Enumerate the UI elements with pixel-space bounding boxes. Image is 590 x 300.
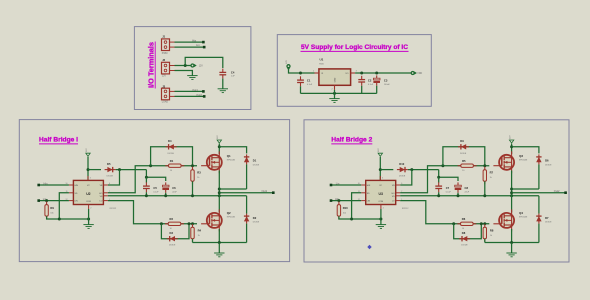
label IRFZ44N [519, 217, 528, 219]
node input (top) [330, 184, 333, 187]
net label Hin [44, 181, 48, 185]
marker blue diamond [367, 245, 371, 249]
label 12V rotated [510, 135, 512, 139]
wire D3 branch [161, 224, 189, 239]
node input (top) [37, 184, 40, 187]
pin 7 [401, 191, 402, 193]
svg-text:J2: J2 [162, 58, 165, 62]
ground (U1) [329, 99, 339, 103]
wire LO to gate Q-low [108, 201, 197, 224]
wire D10 to VB/caps [408, 169, 439, 171]
junction D3 left [160, 222, 163, 225]
diode D5 (bootstrap) [105, 167, 116, 172]
pin 2 [90, 208, 91, 210]
label R4 [198, 229, 202, 233]
wire source to rail [218, 229, 220, 243]
svg-text:12V: 12V [217, 135, 219, 139]
svg-text:C4: C4 [231, 70, 235, 74]
label R2 [170, 217, 174, 221]
pin 2 [383, 208, 384, 210]
wire VS net [400, 195, 539, 197]
label DIODE [253, 222, 260, 224]
svg-text:R9: R9 [50, 206, 54, 210]
wire ground rail [301, 92, 377, 94]
label 1k [197, 177, 199, 179]
label DIODE [461, 244, 468, 246]
net label Lin [336, 181, 340, 185]
wire D1 to phase [246, 164, 248, 189]
junction gate low [191, 222, 194, 225]
svg-text:R6: R6 [462, 217, 466, 221]
svg-text:12V: 12V [199, 66, 204, 68]
svg-text:0.1uF: 0.1uF [368, 84, 374, 86]
wire SD to gnd [59, 193, 69, 219]
label D5 [107, 162, 111, 166]
wire 12V rail to D6 [512, 147, 539, 154]
net label Out2 [196, 93, 202, 97]
svg-text:5V Supply for Logic Circuitry: 5V Supply for Logic Circuitry of IC [301, 44, 408, 51]
diode D6 (freewheel high) [536, 154, 541, 164]
net label Lin [196, 43, 200, 47]
wire R10 to COM/gnd [339, 216, 381, 219]
junction gnd [333, 92, 336, 95]
label 12V flag [199, 66, 204, 68]
net label Out2 [554, 189, 560, 193]
svg-text:22uF: 22uF [172, 191, 177, 193]
svg-text:Out2: Out2 [196, 93, 202, 97]
junction pin2/gnd [379, 218, 382, 221]
label 22uF [172, 191, 177, 193]
svg-text:D3: D3 [170, 231, 174, 235]
svg-text:12V: 12V [286, 60, 288, 64]
svg-text:R5: R5 [462, 159, 466, 163]
label 0.1uF [153, 191, 159, 193]
resistor R10 10k [337, 202, 340, 220]
junction C1 tap [299, 72, 302, 75]
label DIODE [168, 153, 175, 155]
svg-text:C5: C5 [153, 186, 157, 190]
label C2 [368, 78, 372, 82]
label D4 [168, 139, 172, 143]
svg-text:C8: C8 [465, 186, 469, 190]
label DIODE [107, 176, 114, 178]
diode D8 [459, 236, 470, 241]
capacitor C6 (electrolytic) [162, 182, 169, 192]
wire R8 to COM rail [484, 239, 486, 243]
svg-text:DIODE: DIODE [460, 153, 467, 155]
net label Lin [43, 197, 47, 201]
pin 11 [66, 191, 68, 193]
wire C4 to ground [222, 79, 224, 89]
wire Out1 [219, 192, 273, 194]
label 12V rotated [378, 148, 380, 152]
wire VB rail to caps [146, 170, 165, 181]
IC U3 IR2112 gate driver [361, 176, 400, 209]
capacitor C5 [143, 182, 150, 192]
svg-text:U1: U1 [320, 57, 324, 61]
label DIODE [545, 164, 552, 166]
svg-text:6: 6 [109, 183, 110, 185]
svg-text:Q3: Q3 [519, 154, 523, 158]
label C7 [446, 186, 450, 190]
wire 12V rail to D1 [219, 147, 246, 154]
label C8 [465, 186, 469, 190]
junctions phase [218, 188, 221, 195]
junction 12V rail [510, 145, 513, 148]
net label Hin [192, 38, 196, 42]
svg-text:1uF: 1uF [231, 75, 235, 77]
svg-text:Out1: Out1 [192, 88, 198, 92]
label Q2 [227, 211, 231, 215]
IC U2 IR2112 gate driver [69, 176, 108, 209]
pin 6 [109, 183, 110, 185]
node Out2 [564, 191, 567, 194]
svg-text:R10: R10 [343, 206, 348, 210]
svg-text:0.1uF: 0.1uF [153, 191, 159, 193]
svg-text:LO: LO [100, 201, 103, 203]
svg-text:D7: D7 [545, 216, 549, 220]
power flag VDD [411, 71, 417, 74]
node Out1/Out2 terminal dots [202, 90, 205, 98]
svg-text:LIN: LIN [75, 201, 79, 203]
ground (J2) [187, 76, 197, 80]
svg-text:DIODE: DIODE [399, 176, 406, 178]
junction D4 left [149, 164, 152, 167]
label Q1 [227, 154, 231, 158]
svg-text:12V: 12V [86, 148, 88, 152]
svg-text:Half Bridge 2: Half Bridge 2 [331, 136, 372, 143]
title 5V Supply for Logic Circuitry of IC [301, 44, 409, 51]
svg-text:DIODE: DIODE [169, 244, 176, 246]
svg-text:LIN: LIN [367, 201, 371, 203]
power flag 12V (chip supply) [86, 153, 90, 156]
svg-text:IR2112: IR2112 [110, 208, 117, 210]
label VDD [417, 73, 422, 75]
junction pin2/gnd [87, 218, 90, 221]
svg-text:DIODE: DIODE [168, 153, 175, 155]
label R1 [170, 159, 174, 163]
svg-text:0.1uF: 0.1uF [307, 84, 313, 86]
junction C-boot tap [145, 176, 148, 179]
capacitor C8 (electrolytic) [455, 182, 462, 192]
svg-text:2: 2 [383, 208, 384, 210]
svg-text:C3: C3 [384, 78, 388, 82]
wire R3 to VS [192, 181, 194, 195]
label C1 [307, 79, 311, 83]
label 10k [50, 213, 53, 215]
svg-text:U2: U2 [86, 192, 90, 196]
transistor Q2 IRFZ44N [201, 209, 222, 231]
svg-text:HO: HO [99, 193, 102, 195]
label D6 [545, 159, 549, 163]
capacitor C1 [297, 76, 304, 86]
pin 3 [90, 178, 91, 180]
svg-text:10k: 10k [343, 213, 346, 215]
resistor R3 1k (gate-source) [191, 167, 194, 185]
junction D-low [480, 222, 483, 225]
wire COM pin to ground [88, 209, 90, 225]
label C4 [231, 70, 235, 74]
pin 12 [66, 199, 68, 201]
label 10 [170, 228, 173, 230]
svg-text:1k: 1k [197, 177, 199, 179]
label C6 [172, 186, 176, 190]
svg-text:R2: R2 [170, 217, 174, 221]
label R6 [462, 217, 466, 221]
label DIODE [460, 153, 467, 155]
wire HO to gate Q-high [108, 166, 197, 193]
wire J2 pin2 to ground [175, 71, 193, 76]
pin 11 [358, 191, 360, 193]
transistor Q1 IRFZ44N [201, 151, 222, 173]
junction VB drop [410, 168, 413, 171]
label R7 [490, 171, 494, 175]
junction gnd rail [218, 241, 221, 244]
label D8 [462, 231, 466, 235]
label R9 [50, 206, 54, 210]
svg-text:J1: J1 [162, 35, 165, 39]
label LOAD [162, 101, 169, 104]
label U2 [86, 192, 90, 196]
diode D7 (freewheel low) [536, 214, 541, 224]
node input (bottom) [330, 199, 333, 202]
svg-text:COM: COM [86, 201, 91, 203]
wire C1 to ground rail [300, 86, 302, 93]
label D2 [253, 216, 257, 220]
label IRFZ44N [227, 160, 236, 162]
svg-text:1: 1 [313, 71, 314, 73]
wire VO to VDD flag [355, 72, 411, 74]
regulator U1 7805 [314, 69, 355, 90]
svg-text:Q4: Q4 [519, 211, 523, 215]
svg-text:D9: D9 [460, 139, 464, 143]
svg-text:Lin: Lin [336, 181, 340, 185]
label 10k [343, 213, 346, 215]
svg-text:DIODE: DIODE [545, 164, 552, 166]
wire SD to gnd [352, 193, 362, 219]
node Hin/Lin terminal dots [202, 41, 205, 49]
svg-text:GND: GND [335, 77, 337, 82]
wire D6 return [512, 188, 539, 190]
pin 2 [332, 88, 333, 90]
svg-text:Lin: Lin [196, 43, 200, 47]
svg-text:R1: R1 [170, 159, 174, 163]
wire Out2 [512, 192, 566, 194]
wire input HIN [39, 184, 69, 186]
wire COM pin to ground [380, 209, 382, 225]
svg-text:Out1: Out1 [262, 189, 268, 193]
label IR2112 [110, 208, 117, 210]
svg-text:1k: 1k [198, 235, 200, 237]
wire flag to drain [218, 144, 220, 154]
junction gate low [483, 222, 486, 225]
svg-text:IRFZ44N: IRFZ44N [227, 217, 236, 219]
label J2 [162, 58, 165, 62]
wire 12V to VI [289, 68, 315, 73]
diode D3 [167, 236, 178, 241]
frame: Half Bridge 2 block border [304, 120, 569, 262]
title Half Bridge 2 [331, 136, 372, 144]
svg-text:Out2: Out2 [554, 189, 560, 193]
wire D8 branch [454, 224, 482, 239]
wire R9 to COM/gnd [47, 216, 89, 219]
junction gate high [483, 164, 486, 167]
label J3 [162, 84, 165, 88]
transistor Q4 IRFZ44N [493, 209, 514, 231]
label D1 [253, 159, 257, 163]
pin 10 [358, 183, 360, 185]
wire J2 pin1 to 12V flag [175, 65, 192, 67]
svg-text:D6: D6 [545, 159, 549, 163]
frame: Half Bridge 1 block border [19, 120, 289, 262]
resistor R2 10 [165, 222, 184, 225]
power flag 12V (chip supply) [378, 153, 382, 156]
diode D9 [458, 144, 469, 149]
svg-text:Hin: Hin [192, 38, 196, 42]
wire C5 to VS [145, 192, 147, 196]
label DIODE [545, 222, 552, 224]
junctions phase [510, 188, 513, 195]
pin 1 [401, 199, 402, 201]
node Out1 [272, 191, 275, 194]
wire flag to drain [511, 144, 513, 154]
resistor R6 10 [457, 222, 476, 225]
net label Out1 [262, 189, 268, 193]
ground (driver) [83, 225, 93, 229]
label IR2112 [402, 208, 409, 210]
wire input LIN [39, 200, 69, 202]
pin 12 [358, 199, 360, 201]
svg-text:VO: VO [345, 73, 348, 75]
svg-text:COM: COM [378, 201, 383, 203]
label C3 [384, 78, 388, 82]
label 10 [462, 170, 465, 172]
svg-text:0.1uF: 0.1uF [446, 191, 452, 193]
title Half Bridge I [39, 136, 78, 144]
wire to C7 [438, 177, 440, 182]
svg-text:R8: R8 [490, 229, 494, 233]
junction gnd rail [510, 241, 513, 244]
label U3 [379, 192, 383, 196]
ground (driver) [376, 225, 386, 229]
wire VB rail to caps [439, 170, 458, 181]
diode D2 (freewheel low) [244, 214, 249, 224]
svg-text:IRFZ44N: IRFZ44N [227, 160, 236, 162]
label D7 [545, 216, 549, 220]
label 12V [162, 75, 167, 77]
wire to VB pin [400, 170, 412, 185]
svg-text:D8: D8 [462, 231, 466, 235]
pin 10 [66, 183, 68, 185]
label 7805 [319, 64, 325, 66]
svg-text:2: 2 [90, 208, 91, 210]
wire to C5 [145, 177, 147, 182]
wire J1 outputs [175, 42, 205, 47]
label R10 [343, 206, 348, 210]
svg-text:DIODE: DIODE [461, 244, 468, 246]
junctions C2 C3 taps [360, 72, 378, 75]
wire 12V flag to VDD pin [379, 157, 381, 181]
junction VDD/D-boot [379, 168, 382, 171]
wire VS to D2 [246, 196, 248, 214]
label Q4 [519, 211, 523, 215]
diode D1 (freewheel high) [244, 154, 249, 164]
svg-text:DIODE: DIODE [253, 222, 260, 224]
diode D10 (bootstrap) [397, 167, 408, 172]
svg-text:22uF: 22uF [465, 191, 470, 193]
svg-text:3: 3 [90, 178, 91, 180]
svg-text:IRFZ44N: IRFZ44N [519, 160, 528, 162]
frame: I/O Terminals block border [134, 27, 251, 110]
junction C-boot tap [437, 176, 440, 179]
wire to ground [218, 243, 220, 254]
svg-text:C7: C7 [446, 186, 450, 190]
capacitor C4 [219, 69, 226, 79]
label R8 [490, 229, 494, 233]
svg-text:7805: 7805 [319, 64, 325, 66]
connector J3 [162, 88, 175, 100]
wire J2 to C4 [185, 57, 223, 68]
net label Hin [335, 197, 339, 201]
wire phase vertical [511, 171, 513, 213]
svg-text:IR2112: IR2112 [402, 208, 409, 210]
wire D7 to COM rail [538, 224, 540, 243]
svg-text:HIN: HIN [75, 185, 79, 187]
svg-text:D2: D2 [253, 216, 257, 220]
power flag 12V input [287, 65, 290, 71]
label IRFZ44N [519, 160, 528, 162]
label R5 [462, 159, 466, 163]
junction D9 left [441, 164, 444, 167]
wire VS net [108, 195, 247, 197]
label 10 [462, 228, 465, 230]
label 12V rotated [86, 148, 88, 152]
resistor R1 10 [165, 164, 184, 167]
transistor Q3 IRFZ44N [493, 151, 514, 173]
wire R4 to COM rail [192, 239, 194, 243]
label DIODE [253, 164, 260, 166]
svg-text:HO: HO [392, 193, 395, 195]
svg-text:PWM: PWM [162, 53, 168, 55]
svg-text:R4: R4 [198, 229, 202, 233]
junction R9 tap [45, 199, 48, 202]
label DIODE [169, 244, 176, 246]
svg-text:12V: 12V [162, 75, 167, 77]
junction D8 left [452, 222, 455, 225]
svg-text:Q1: Q1 [227, 154, 231, 158]
svg-text:12V: 12V [378, 148, 380, 152]
svg-text:DIODE: DIODE [107, 176, 114, 178]
svg-text:3: 3 [382, 178, 383, 180]
wire HO to gate Q-high [400, 166, 489, 193]
svg-text:LOAD: LOAD [162, 101, 169, 104]
diode D4 [166, 144, 177, 149]
frame: 5V supply block border [277, 35, 431, 107]
wire R7 to VS [484, 181, 486, 195]
svg-text:1k: 1k [490, 235, 492, 237]
wire C2 C3 to rail [362, 86, 377, 94]
pin 1 [109, 199, 110, 201]
junction R10 tap [337, 199, 340, 202]
junction D-low [188, 222, 191, 225]
svg-text:C6: C6 [172, 186, 176, 190]
resistor R7 1k (gate-source) [483, 167, 486, 185]
wire D4 branch [151, 147, 193, 166]
label 1k [490, 177, 492, 179]
net label Out1 [192, 88, 198, 92]
pin 6 [401, 183, 402, 185]
junction VDD/D-boot [87, 168, 90, 171]
